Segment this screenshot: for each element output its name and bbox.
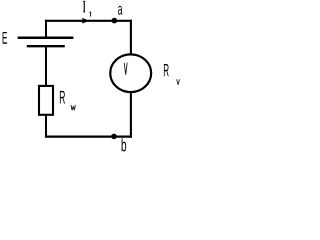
current arrow I bbox=[82, 18, 89, 24]
label a bbox=[118, 6, 123, 15]
battery E bottom plate (short) bbox=[27, 45, 65, 47]
wire right vertical upper bbox=[130, 20, 132, 56]
resistor Rw box bbox=[39, 86, 53, 115]
wire left vertical lower bbox=[45, 115, 47, 138]
node a dot bbox=[112, 18, 118, 24]
label b bbox=[122, 138, 127, 151]
wire left vertical middle bbox=[45, 46, 47, 86]
node b dot bbox=[111, 134, 117, 140]
wire right vertical lower bbox=[130, 91, 132, 138]
wire left vertical upper bbox=[45, 20, 47, 38]
label E bbox=[3, 32, 7, 44]
label I subscript 1 bbox=[90, 12, 92, 17]
label Rv bbox=[164, 64, 169, 76]
wire top horizontal bbox=[45, 20, 132, 22]
wire bottom horizontal bbox=[45, 136, 132, 138]
voltmeter V letter bbox=[124, 63, 127, 75]
label I bbox=[83, 1, 85, 12]
battery E top plate (long) bbox=[18, 37, 74, 40]
label Rw bbox=[60, 91, 65, 104]
voltmeter Rv circle bbox=[110, 54, 151, 92]
